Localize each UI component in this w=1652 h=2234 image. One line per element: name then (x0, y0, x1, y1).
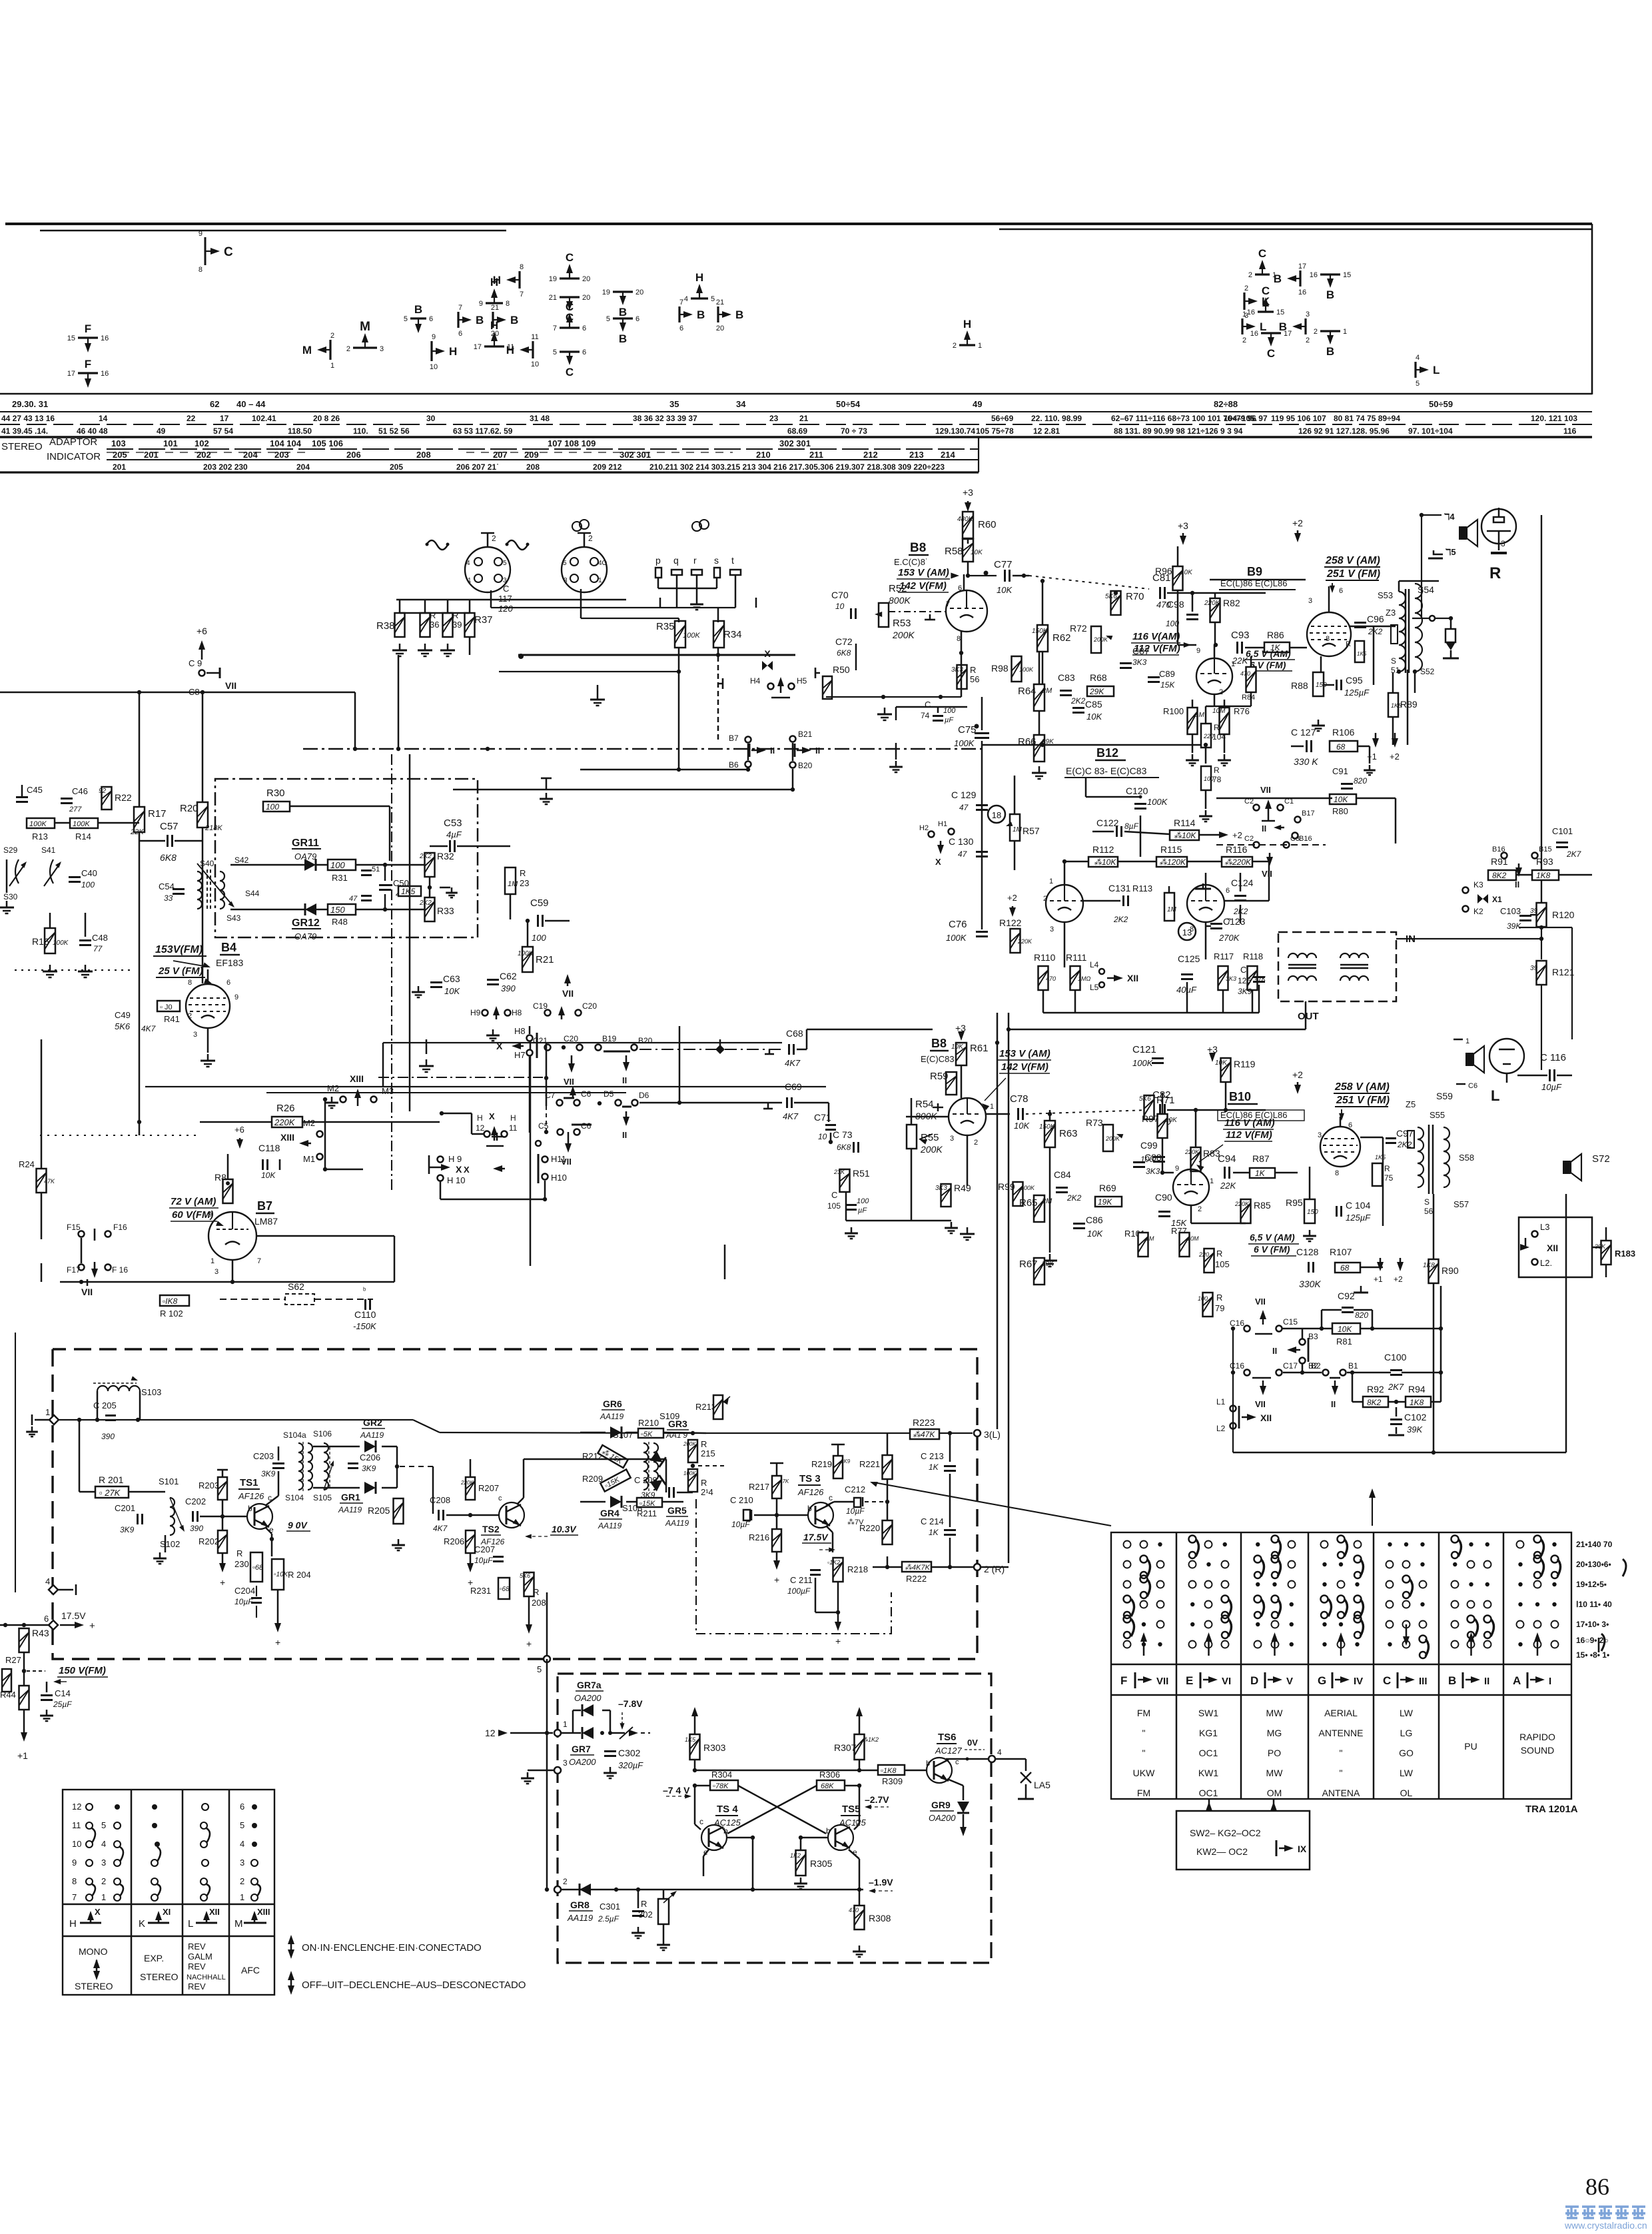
svg-text:B21: B21 (798, 730, 813, 739)
switch row C21 C20 B19 B20 (533, 1034, 653, 1051)
svg-text:3: 3 (563, 1758, 568, 1768)
svg-text:⁂220K: ⁂220K (1224, 857, 1252, 867)
wire B8a out (968, 575, 997, 576)
svg-text:R: R (520, 868, 526, 878)
label 0V (965, 1738, 985, 1761)
tube B8b triode (949, 1098, 994, 1147)
tube B9 header (1210, 565, 1306, 590)
wire R34 up (717, 608, 719, 622)
svg-text:R210: R210 (638, 1418, 659, 1428)
switch table contact grid (1124, 1536, 1561, 1659)
svg-text:c: c (829, 1493, 833, 1502)
wire R63 up (1049, 1110, 1051, 1121)
svg-text:390: 390 (501, 983, 516, 993)
ground C105 (845, 1227, 858, 1239)
svg-text:+2: +2 (1007, 893, 1017, 903)
junction H (543, 1197, 547, 1201)
svg-text:R115: R115 (1160, 844, 1182, 855)
wire TS5 emit2 (859, 1859, 861, 1906)
svg-text:R112: R112 (1092, 844, 1114, 855)
wire B10 cath (1309, 1167, 1311, 1199)
svg-text:8: 8 (957, 635, 961, 643)
ground R100 (1186, 754, 1199, 766)
wire decoder rail right (706, 1432, 913, 1434)
svg-text:100: 100 (532, 933, 546, 943)
wire B20 drop (792, 769, 794, 790)
wire matrix bot (626, 1501, 637, 1503)
wire left margin wire (0, 1624, 49, 1626)
resistor R17 (130, 807, 167, 836)
wire sec down (1414, 672, 1416, 693)
voltage 116V (1131, 631, 1191, 655)
svg-text:15: 15 (67, 334, 75, 342)
speaker L unit (1453, 1037, 1524, 1104)
svg-text:200K: 200K (1093, 636, 1108, 643)
wire det dash out (400, 1466, 433, 1467)
capacitor C210 (730, 1495, 753, 1529)
svg-text:R106: R106 (1332, 727, 1355, 738)
ground H9 (486, 1029, 500, 1041)
resistor R231b (470, 1578, 510, 1599)
svg-text:H5: H5 (797, 676, 807, 686)
svg-text:5: 5 (563, 560, 567, 567)
svg-text:+6: +6 (197, 626, 207, 636)
svg-text:330 K: 330 K (1294, 756, 1318, 767)
wire R61 down (961, 1066, 963, 1098)
wire b12 3L wire top (997, 1089, 1009, 1091)
row separator segments (107, 452, 306, 453)
wire TS4 emit down (703, 1856, 705, 1876)
resistor R78 (1201, 766, 1222, 790)
svg-text:XIII: XIII (257, 1907, 270, 1917)
resistor R74 1K5 (1346, 640, 1367, 662)
resistor R87 box (1250, 1153, 1275, 1178)
curled wire icon b (506, 540, 530, 550)
svg-text:R205: R205 (368, 1505, 390, 1516)
svg-text:": " (1142, 1728, 1146, 1738)
capacitor C120 (1126, 786, 1168, 809)
svg-text:S58: S58 (1459, 1153, 1474, 1163)
wire B10d plate (1206, 1170, 1219, 1173)
voltage 153V AM B8 (897, 567, 959, 592)
svg-text:IX: IX (1298, 1844, 1307, 1854)
resistor R86 box (1264, 630, 1290, 652)
wire decoder rail jog (413, 1420, 440, 1432)
svg-text:2: 2 (1248, 271, 1252, 279)
svg-text:STEREO: STEREO (75, 1981, 113, 1991)
svg-text:V: V (1286, 1676, 1293, 1687)
wire GR7 out (610, 1732, 625, 1734)
svg-text:3: 3 (1501, 539, 1505, 548)
svg-text:R: R (1384, 1164, 1390, 1173)
svg-text:202: 202 (197, 450, 211, 460)
svg-text:10K: 10K (444, 986, 460, 996)
ground under R38 (392, 644, 407, 656)
svg-text:H1: H1 (938, 820, 947, 828)
svg-text:6K8: 6K8 (160, 852, 177, 863)
wire C95 wire (1324, 684, 1334, 686)
svg-text:R53: R53 (893, 618, 911, 629)
svg-text:D5: D5 (604, 1089, 614, 1099)
svg-text:200K: 200K (683, 1441, 696, 1447)
connector strip p q r s t (655, 555, 741, 578)
wire C74 top (937, 706, 939, 713)
svg-text:208: 208 (532, 1598, 546, 1608)
svg-text:R119: R119 (1234, 1059, 1256, 1069)
svg-text:R50: R50 (833, 664, 850, 675)
wire C68 up (797, 1049, 807, 1051)
svg-text:R68: R68 (1090, 672, 1107, 683)
resistor R13 (27, 818, 55, 841)
svg-text:R20: R20 (180, 803, 199, 814)
capacitor C68 (765, 1028, 803, 1068)
svg-text:R76: R76 (1234, 706, 1250, 716)
wire B10 plate (1340, 1117, 1342, 1127)
svg-text:201: 201 (144, 450, 159, 460)
svg-text:3(L): 3(L) (984, 1429, 1001, 1440)
svg-text:205: 205 (113, 450, 127, 460)
ground R88 (1312, 720, 1325, 731)
resistor R221 (859, 1455, 893, 1479)
supply +2 B12 (1007, 893, 1017, 917)
svg-text:C75: C75 (958, 724, 977, 736)
resistor R223 box (910, 1417, 939, 1439)
svg-text:10K: 10K (1014, 1121, 1030, 1131)
svg-text:38 36 32 33 39 37: 38 36 32 33 39 37 (633, 414, 697, 423)
svg-text:25µF: 25µF (53, 1700, 72, 1709)
svg-text:REV: REV (188, 1981, 206, 1991)
svg-text:C124: C124 (1231, 877, 1254, 888)
svg-text:75: 75 (1384, 1173, 1394, 1183)
svg-text:119 95 106 107: 119 95 106 107 (1271, 414, 1326, 423)
capacitor C211 (787, 1570, 821, 1596)
capacitor C83 (1058, 672, 1086, 706)
svg-text:153V(FM): 153V(FM) (155, 944, 203, 955)
svg-text:1: 1 (1210, 1177, 1214, 1185)
svg-text:H: H (69, 1918, 77, 1930)
svg-text:210.211 302 214 303.215 213 30: 210.211 302 214 303.215 213 304 216 217.… (649, 462, 945, 472)
junction TS1 base (220, 1514, 224, 1518)
resistor R307 (834, 1707, 879, 1760)
svg-text:49: 49 (157, 426, 166, 436)
svg-text:206 207 21˙: 206 207 21˙ (456, 462, 499, 472)
svg-text:R207: R207 (478, 1483, 499, 1493)
svg-text:+2: +2 (1390, 752, 1400, 762)
terminal B15 (1532, 845, 1552, 859)
svg-text:29.30. 31: 29.30. 31 (12, 399, 48, 409)
svg-text:S62: S62 (288, 1281, 304, 1292)
wire R98 down (895, 743, 897, 760)
wire C213 mid (949, 1474, 951, 1527)
svg-text:H 10: H 10 (447, 1175, 465, 1185)
svg-text:OUT: OUT (1298, 1011, 1319, 1022)
svg-text:3K9: 3K9 (120, 1525, 135, 1534)
svg-text:B10: B10 (1229, 1090, 1251, 1103)
capacitor C54 (159, 881, 185, 903)
resistor R21 (518, 947, 554, 972)
label IN (1406, 933, 1416, 945)
wire R222 right (931, 1566, 974, 1568)
svg-text:L2: L2 (1216, 1424, 1226, 1433)
coil S107 S109 (613, 1411, 679, 1513)
svg-text:R307: R307 (834, 1742, 857, 1753)
svg-text:⁂10K: ⁂10K (1174, 831, 1196, 840)
wire R26 wire (200, 1121, 272, 1123)
wire numbers row 5 (113, 450, 955, 460)
wire S62 dash (220, 1299, 285, 1300)
svg-text:3: 3 (240, 1858, 244, 1868)
tube B10 header (1218, 1090, 1304, 1121)
svg-text:2: 2 (492, 534, 496, 543)
svg-text:C49: C49 (115, 1010, 131, 1020)
svg-text:E(C)C83: E(C)C83 (921, 1054, 955, 1064)
junction R21 (526, 919, 530, 923)
svg-text:B4: B4 (221, 941, 236, 954)
svg-text:100: 100 (330, 860, 345, 870)
on off legend (288, 1935, 526, 1995)
resistor R208b (520, 1572, 546, 1608)
svg-text:PO: PO (1268, 1748, 1281, 1758)
junction margin (1539, 925, 1543, 929)
wire bottom bus y2180 (1233, 1452, 1566, 1453)
svg-text:206: 206 (346, 450, 361, 460)
svg-text:R 204: R 204 (288, 1570, 311, 1580)
svg-text:3K9: 3K9 (841, 1458, 851, 1464)
svg-text:GR6: GR6 (603, 1398, 622, 1409)
capacitor C51 (361, 865, 380, 875)
svg-text:c: c (699, 1817, 703, 1826)
svg-text:R107: R107 (1330, 1247, 1352, 1257)
svg-text:VII: VII (1260, 785, 1271, 795)
svg-text:5: 5 (711, 295, 715, 303)
svg-text:F15: F15 (67, 1223, 81, 1232)
svg-text:R94: R94 (1408, 1384, 1426, 1395)
wire R13 R14 link (55, 822, 70, 824)
switch table header line2 (1111, 1694, 1571, 1696)
resistor R306 box (817, 1770, 845, 1790)
resistor R207 (460, 1477, 499, 1500)
ground R78 (1199, 810, 1212, 822)
junction C81 R70 (1114, 591, 1118, 595)
svg-text:57 54: 57 54 (213, 426, 233, 436)
junction b9 (1190, 591, 1218, 647)
svg-text:51: 51 (372, 865, 380, 873)
capacitor C124 (1231, 877, 1254, 916)
wire B12a cath (1064, 922, 1066, 967)
wire TS1 emit2 (271, 1534, 273, 1556)
wire grid B9d (1178, 644, 1196, 646)
resistor R309 box (878, 1765, 905, 1786)
svg-text:2.5µF: 2.5µF (598, 1914, 619, 1924)
svg-text:R87: R87 (1252, 1153, 1270, 1164)
svg-text:1M: 1M (1013, 826, 1023, 834)
svg-text:126: 126 (1238, 976, 1251, 985)
wire OUT left (1009, 1029, 1306, 1031)
wire C211 link (815, 1578, 817, 1612)
junction C77R62 (1040, 579, 1044, 583)
svg-text:+2: +2 (1232, 830, 1242, 840)
svg-text:C68: C68 (786, 1028, 803, 1039)
wire y1118 bus (982, 744, 1201, 746)
svg-text:NACHHALL: NACHHALL (187, 1973, 226, 1981)
svg-text:2M: 2M (1041, 687, 1052, 695)
capacitor C75 (954, 724, 989, 749)
svg-text:6: 6 (458, 330, 462, 338)
svg-text:82÷88: 82÷88 (1214, 399, 1238, 409)
wire socket right down (580, 589, 582, 618)
junction R220 bot (885, 1565, 889, 1569)
svg-text:B: B (414, 303, 422, 316)
wire det join (382, 1446, 397, 1448)
svg-text:22: 22 (187, 414, 196, 423)
svg-text:7: 7 (679, 298, 683, 306)
svg-text:LM87: LM87 (254, 1216, 278, 1227)
resistor R51 (833, 1168, 870, 1192)
svg-text:R96: R96 (1155, 566, 1172, 576)
svg-text:251 V (FM): 251 V (FM) (1336, 1095, 1390, 1106)
svg-text:4K7: 4K7 (783, 1111, 799, 1121)
resistor R215 (683, 1439, 715, 1462)
double circle mark (572, 520, 589, 531)
svg-text:C110: C110 (354, 1309, 376, 1320)
svg-text:ℸ5: ℸ5 (1445, 547, 1456, 557)
svg-text:C 9: C 9 (189, 658, 202, 668)
capacitor C100 (1384, 1352, 1407, 1392)
junction det2 (395, 1464, 399, 1468)
svg-text:10K: 10K (1086, 712, 1102, 722)
svg-text:2: 2 (953, 342, 957, 350)
svg-text:C122: C122 (1096, 818, 1119, 828)
svg-text:100K: 100K (1132, 1058, 1154, 1068)
svg-text:203 202 230: 203 202 230 (203, 462, 248, 472)
svg-text:s: s (714, 555, 719, 566)
capacitor C93 (1231, 630, 1250, 666)
ground R76 (1218, 754, 1231, 766)
resistor R114 box (1170, 818, 1199, 840)
resistor R97 (1142, 1113, 1178, 1138)
svg-text:6: 6 (582, 324, 586, 332)
switch contact F 17-16 (67, 358, 109, 388)
terminal B6 (729, 760, 751, 770)
switch contact B left 3-2 (1279, 310, 1310, 344)
svg-text:C301: C301 (600, 1902, 620, 1912)
wire C6b dash (546, 1103, 547, 1132)
wire C201 link (145, 1518, 159, 1520)
label -19V (869, 1877, 893, 1894)
watermark blue title (1565, 2207, 1645, 2218)
svg-text:L: L (1433, 364, 1440, 376)
svg-text:17: 17 (1284, 330, 1292, 338)
junction GR7 out (600, 1731, 612, 1735)
wire x2163 vert (1440, 1286, 1442, 1373)
svg-text:31 48: 31 48 (530, 414, 550, 423)
svg-text:10K: 10K (997, 585, 1013, 595)
svg-text:+: + (275, 1637, 280, 1648)
svg-text:X: X (935, 857, 941, 867)
svg-text:50÷59: 50÷59 (1429, 399, 1453, 409)
svg-text:AA119: AA119 (598, 1521, 621, 1530)
ground r pin (690, 598, 703, 610)
capacitor C126 (1238, 965, 1265, 996)
svg-text:820: 820 (1354, 776, 1367, 786)
resistor R93 box (1532, 856, 1559, 880)
svg-text:R13: R13 (32, 832, 48, 841)
switch contact H11 left (506, 333, 539, 368)
svg-text:3: 3 (101, 1858, 106, 1868)
capacitor C208 (430, 1495, 450, 1533)
svg-text:3K9: 3K9 (1238, 987, 1252, 996)
svg-text:1: 1 (990, 1103, 994, 1111)
svg-text:AF126: AF126 (797, 1487, 824, 1497)
svg-text:VII: VII (225, 680, 236, 691)
svg-text:B16: B16 (1299, 835, 1312, 843)
resistor R71 (1139, 1095, 1175, 1119)
svg-text:SW2– KG2–OC2: SW2– KG2–OC2 (1190, 1828, 1261, 1838)
junction 150v (22, 1669, 26, 1673)
svg-text:TS 4: TS 4 (717, 1804, 738, 1815)
switch cluster M2 M3 (323, 1073, 394, 1106)
svg-text:213: 213 (909, 450, 924, 460)
svg-text:100K: 100K (73, 820, 90, 828)
svg-text:LA5: LA5 (1034, 1780, 1050, 1790)
wire TS2 coll up (523, 1459, 525, 1463)
diode GR1 (338, 1482, 376, 1514)
switch table outer (1111, 1532, 1571, 1799)
tube B7 EM87 (208, 1211, 261, 1276)
wire B12 col2 (981, 741, 983, 929)
wire det bot (230, 909, 305, 911)
wire corner y1392 (1519, 927, 1572, 928)
resistor R214 (683, 1469, 713, 1497)
svg-text:17: 17 (474, 343, 482, 351)
wire node5 vert up (546, 1599, 548, 1656)
terminal H4 (750, 676, 774, 690)
wire coil top out (659, 1442, 693, 1444)
svg-text:R218: R218 (847, 1564, 868, 1574)
wire C59 right (545, 920, 570, 922)
junction OUT (995, 1027, 1011, 1045)
svg-text:C84: C84 (1054, 1169, 1071, 1180)
switch L1 L2 (1216, 1397, 1272, 1433)
wire R64 mid (1038, 711, 1040, 735)
resistor R32 (419, 851, 454, 877)
potentiometer R213 (695, 1395, 730, 1419)
svg-text:X: X (496, 1041, 503, 1051)
svg-text:105: 105 (827, 1201, 841, 1211)
resistor R230 (234, 1548, 264, 1582)
chassis dash y1616 (378, 1077, 543, 1078)
ground B8a cath (877, 708, 892, 720)
capacitor C201 (115, 1503, 143, 1534)
svg-text:20: 20 (491, 330, 499, 338)
top frame right edge (1591, 224, 1593, 394)
svg-text:b: b (248, 1504, 252, 1513)
wire x2360 down (1571, 927, 1573, 1039)
resistor R117 (1214, 951, 1236, 990)
junction left (3, 1623, 26, 1627)
svg-text:C: C (224, 245, 233, 259)
svg-text:R118: R118 (1243, 951, 1263, 961)
svg-text:OFF–UIT–DECLENCHE–AUS–DESCONEC: OFF–UIT–DECLENCHE–AUS–DESCONECTADO (302, 1979, 526, 1991)
switch contact B 16-15 down (1310, 271, 1352, 301)
wire mid bus y983 (518, 654, 795, 656)
wire numbers row 3 (1, 426, 1577, 436)
wire B12c plate (1205, 873, 1207, 885)
resistor R34 (713, 621, 742, 648)
svg-text:10: 10 (818, 1132, 827, 1141)
junction H bus (137, 690, 205, 694)
svg-text:MG: MG (1267, 1728, 1282, 1738)
